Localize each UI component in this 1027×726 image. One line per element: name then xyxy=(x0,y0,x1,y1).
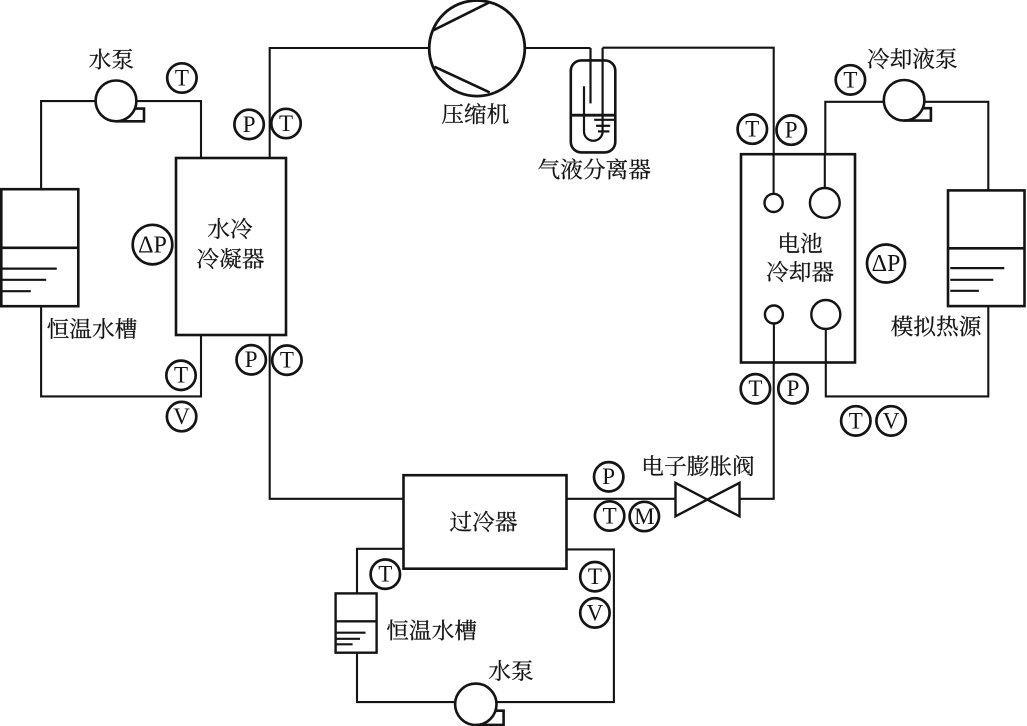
wire: coolant pump discharge to simulated heat source top xyxy=(924,102,989,191)
electronic expansion valve xyxy=(676,483,740,516)
svg-text:ΔP: ΔP xyxy=(872,251,901,277)
svg-text:P: P xyxy=(785,118,798,143)
wire: left pump discharge to condenser water inlet xyxy=(136,101,202,159)
battery cooler coolant outlet port xyxy=(811,300,840,329)
label: battery cooler line1 xyxy=(780,233,822,254)
label: simulated heat source xyxy=(891,316,980,337)
sensor T condenser water outlet xyxy=(166,361,195,390)
sensor V condenser water flow xyxy=(167,402,196,431)
wire: subcooler water outlet to bottom tank xyxy=(357,549,404,594)
sensor P battery cooler refrigerant inlet xyxy=(777,115,806,144)
label: compressor xyxy=(442,103,509,124)
sensor T condenser refrigerant outlet xyxy=(272,346,301,375)
svg-text:T: T xyxy=(175,65,189,90)
subcooler box xyxy=(404,475,567,569)
sensor T coolant pump suction xyxy=(836,65,865,94)
label: gas-liquid separator xyxy=(538,158,650,179)
sensor T after left pump xyxy=(167,63,196,92)
wire: coolant pump suction to battery cooler coolant inlet port xyxy=(825,102,884,203)
wire: stub box top to refrigerant inlet port xyxy=(773,154,775,203)
wire: left pump suction from left thermostatic tank xyxy=(41,101,96,190)
label: battery cooler line2 xyxy=(767,261,834,282)
sensor P condenser refrigerant inlet xyxy=(234,110,263,139)
sensor T subcooler water inlet xyxy=(580,562,609,591)
sensor M subcooler outlet xyxy=(630,502,659,531)
battery cooler box xyxy=(741,154,855,362)
sensor P battery cooler refrigerant outlet xyxy=(778,374,807,403)
wire: expansion valve to subcooler refrigerant side xyxy=(567,498,676,500)
svg-text:T: T xyxy=(745,117,759,142)
svg-text:T: T xyxy=(603,503,617,528)
water-cooled condenser box xyxy=(176,158,286,335)
sensor T battery cooler refrigerant outlet xyxy=(741,374,770,403)
label: water pump (bottom) xyxy=(489,660,533,681)
sensor T heat source loop xyxy=(841,406,870,435)
sensor T condenser refrigerant inlet xyxy=(271,109,300,138)
svg-text:V: V xyxy=(883,408,900,433)
wire: subcooler refrigerant out to condenser bottom xyxy=(270,334,404,499)
svg-text:P: P xyxy=(243,112,256,137)
svg-text:M: M xyxy=(634,504,654,529)
label: condenser line1 xyxy=(208,218,252,239)
wire: battery cooler coolant outlet to heat source bottom xyxy=(826,305,989,396)
sensor T subcooler outlet xyxy=(595,501,624,530)
label: water pump (top left) xyxy=(89,49,133,70)
battery cooler refrigerant outlet port xyxy=(765,306,783,324)
sensor T battery cooler refrigerant inlet xyxy=(738,114,767,143)
left water pump xyxy=(96,81,144,122)
gas-liquid separator vessel xyxy=(571,48,616,153)
sensor V heat source loop flow xyxy=(876,406,905,435)
label: coolant pump xyxy=(868,48,957,69)
left thermostatic water tank xyxy=(1,189,78,306)
svg-text:V: V xyxy=(587,600,604,625)
bottom thermostatic water tank xyxy=(336,593,377,652)
sensor P condenser refrigerant outlet xyxy=(237,345,266,374)
wire: stub box top to coolant inlet port xyxy=(824,154,826,203)
svg-text:P: P xyxy=(787,376,800,401)
label: electronic expansion valve xyxy=(644,455,753,476)
label: condenser line2 xyxy=(197,248,264,269)
wire: stub coolant outlet port to box bottom xyxy=(825,315,827,363)
label: left thermostatic water tank xyxy=(48,318,137,339)
wire: stub refrigerant outlet port to box bottom xyxy=(773,315,775,363)
svg-text:P: P xyxy=(245,347,258,372)
battery cooler coolant inlet port xyxy=(810,188,840,218)
simulated heat source tank xyxy=(948,190,1025,306)
svg-text:T: T xyxy=(588,564,602,589)
battery cooler refrigerant inlet port xyxy=(765,194,783,212)
wire: condenser water outlet back to left tank xyxy=(41,305,201,396)
svg-text:T: T xyxy=(843,67,857,92)
svg-text:T: T xyxy=(280,348,294,373)
svg-text:T: T xyxy=(748,376,762,401)
wire: compressor discharge (condenser top to compressor inlet), top-left corner xyxy=(270,48,430,159)
wire: compressor outlet to separator inlet xyxy=(524,47,591,49)
compressor circle xyxy=(429,1,525,97)
svg-text:V: V xyxy=(173,404,190,429)
svg-text:T: T xyxy=(849,408,863,433)
sensor P subcooler outlet xyxy=(594,462,623,491)
sensor dP battery cooler xyxy=(867,245,905,283)
sensor T bottom tank inlet xyxy=(371,560,400,589)
svg-text:T: T xyxy=(174,363,188,388)
svg-text:P: P xyxy=(602,464,615,489)
svg-text:T: T xyxy=(378,562,392,587)
sensor V subcooler water flow xyxy=(580,598,609,627)
svg-text:T: T xyxy=(279,111,293,136)
label: bottom thermostatic water tank xyxy=(387,620,476,641)
label: subcooler xyxy=(450,511,517,532)
wire: bottom pump discharge up to subcooler water inlet xyxy=(496,549,614,702)
wire: battery cooler refrigerant outlet down to expansion valve xyxy=(740,315,774,499)
wire: separator outlet to battery cooler refrigerant inlet port xyxy=(603,48,774,203)
svg-text:ΔP: ΔP xyxy=(138,232,167,258)
coolant pump xyxy=(884,80,931,121)
wire: bottom tank to bottom water pump suction xyxy=(357,652,456,702)
bottom water pump xyxy=(455,684,504,725)
sensor dP condenser xyxy=(133,225,173,265)
